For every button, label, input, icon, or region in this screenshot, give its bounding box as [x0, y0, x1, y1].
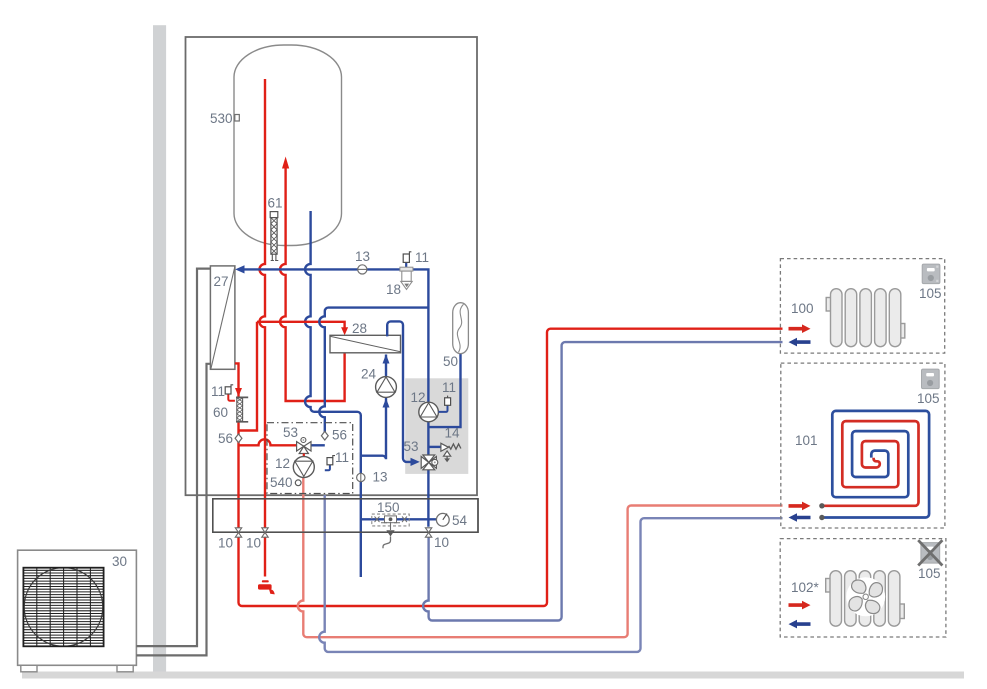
- degasser 18: [400, 267, 413, 289]
- refrigerant pipe outdoor-indoor (upper): [136, 269, 210, 646]
- pipe: expansion vessel 50 connection (blue): [429, 354, 461, 428]
- pipe: top blue line to HX27 with 13 sensor and degasser 18: [235, 265, 428, 526]
- pipe: blue tap from mixing valve to return riser: [311, 444, 325, 446]
- svg-text:60: 60: [213, 405, 228, 420]
- svg-text:13: 13: [373, 470, 388, 485]
- svg-text:102*: 102*: [791, 580, 820, 595]
- svg-text:28: 28: [352, 321, 367, 336]
- svg-text:12: 12: [411, 390, 426, 405]
- svg-text:530: 530: [210, 111, 233, 126]
- svg-text:11: 11: [442, 380, 456, 395]
- wall: [153, 25, 166, 678]
- vent valve 11 (mixed circuit box): [325, 456, 335, 471]
- tank sensor pocket 530: [235, 115, 240, 122]
- safety valve 14: [441, 443, 461, 462]
- svg-text:105: 105: [917, 391, 940, 406]
- mixed circuit dash-dot box: [267, 423, 353, 494]
- shutoff valve 10 (red supply): [235, 528, 241, 537]
- shutoff valve 10 (tap line): [262, 528, 268, 537]
- thermostat 105 room 101: [922, 369, 940, 389]
- svg-text:14: 14: [445, 426, 461, 441]
- check valve 56 (blue line): [321, 431, 328, 440]
- svg-text:53: 53: [404, 439, 419, 454]
- refrigerant pipe outdoor-indoor (lower): [136, 364, 210, 656]
- drain valve 11 at filter 60: [225, 385, 235, 401]
- pipe: branch to HX 28 (red): [239, 322, 349, 431]
- svg-text:24: 24: [361, 367, 377, 382]
- gray highlight zone (DHW pump group): [405, 378, 468, 474]
- svg-text:10: 10: [218, 536, 233, 551]
- field pipe: heating return from room 100 (blue): [423, 342, 782, 620]
- fan coil icon room 102: [826, 571, 905, 627]
- outdoor unit 30: [18, 550, 137, 672]
- backflow preventer 60: [236, 397, 248, 421]
- underfloor heating spiral room 101: [822, 411, 929, 518]
- svg-text:10: 10: [246, 536, 261, 551]
- svg-text:540: 540: [270, 475, 293, 490]
- filter unit 150: [372, 514, 409, 526]
- pipe: tank charge line from HX28 (red with up arrow): [280, 157, 344, 402]
- radiator icon room 100: [826, 289, 905, 347]
- svg-text:11: 11: [335, 450, 349, 465]
- drain 540: [295, 480, 301, 486]
- room 102 box: [780, 539, 946, 637]
- heat exchanger 28: [330, 335, 401, 353]
- pipe: tank hot water outlet to tap (red riser): [260, 79, 266, 577]
- return arrow room 101 (blue): [789, 513, 811, 522]
- hot water tap: [258, 580, 275, 594]
- supply arrow room 102 (red): [789, 601, 811, 610]
- pipe: blue out of HX28 to 3-way valve 53 (with arrow): [387, 321, 420, 466]
- svg-text:105: 105: [918, 566, 941, 581]
- svg-text:13: 13: [355, 249, 370, 264]
- return arrow room 100 (blue): [789, 338, 811, 347]
- expansion vessel 50: [453, 303, 469, 354]
- svg-text:50: 50: [443, 354, 458, 369]
- thermostat 105 room 100: [922, 264, 940, 284]
- diverter valve 53 (right): [421, 455, 438, 470]
- DHW pump 12 (gray zone): [419, 402, 439, 422]
- room 100 box: [780, 259, 944, 354]
- field pipe: mixed circuit return from room 101 (pale blue): [319, 495, 782, 652]
- pipe: blue loop from return riser to pump 12 line: [319, 308, 428, 436]
- svg-text:61: 61: [268, 196, 283, 211]
- check valve 56 (red line): [235, 434, 242, 443]
- svg-text:12: 12: [275, 456, 290, 471]
- pump 24: [376, 377, 397, 398]
- spiral connection dots: [819, 503, 824, 520]
- floor: [22, 672, 964, 679]
- sensor 13 (bottom): [357, 473, 365, 481]
- vent valve 11 (top): [403, 252, 411, 271]
- mixing valve 53 (left): [297, 438, 311, 459]
- field pipe: heating supply to room 100 (red): [239, 329, 783, 606]
- svg-text:150: 150: [377, 500, 400, 515]
- svg-text:10: 10: [434, 535, 449, 550]
- room 101 box: [781, 363, 945, 528]
- tundish drain below 150: [383, 522, 395, 548]
- heat exchanger 27: [210, 266, 235, 369]
- circulation pump 12 (mixed circuit): [293, 457, 314, 478]
- field pipe: mixed circuit supply to room 101 (pale red): [298, 477, 783, 637]
- shutoff valve 10 (blue return): [425, 528, 431, 537]
- svg-text:11: 11: [415, 250, 429, 265]
- pipe: red branch to mixing valve 53: [239, 439, 297, 445]
- pipe: pump 24 suction from compartment (blue): [361, 398, 390, 459]
- svg-text:105: 105: [919, 286, 942, 301]
- svg-text:30: 30: [112, 554, 127, 569]
- supply arrow room 100 (red): [789, 324, 811, 333]
- svg-text:11: 11: [211, 384, 225, 399]
- pipe: pump 24 discharge into HX28 (blue): [383, 354, 390, 377]
- svg-text:56: 56: [332, 428, 347, 443]
- electric heater element 61: [270, 212, 278, 261]
- svg-text:56: 56: [218, 431, 233, 446]
- pipe: tank cold feed (blue riser): [305, 211, 361, 577]
- vent valve 11 (gray zone): [439, 396, 451, 412]
- svg-text:27: 27: [214, 274, 229, 289]
- sensor 13 (top): [358, 265, 367, 274]
- crossed-out thermostat 105 room 102: [918, 540, 942, 565]
- return arrow room 102 (blue): [789, 620, 811, 629]
- svg-text:18: 18: [386, 282, 401, 297]
- supply arrow room 101 (red): [789, 502, 811, 511]
- svg-text:54: 54: [452, 513, 468, 528]
- svg-text:101: 101: [795, 433, 818, 448]
- pipe: compartment line to pressure gauge 54: [361, 518, 437, 520]
- connection compartment border (over pipes): [213, 499, 478, 532]
- svg-text:100: 100: [791, 301, 814, 316]
- svg-text:53: 53: [283, 425, 298, 440]
- pressure gauge 54: [436, 513, 449, 526]
- DHW cylinder tank: [234, 45, 342, 246]
- pipe: safety valve 14 stub (blue): [429, 446, 441, 448]
- indoor unit enclosure: [186, 37, 478, 495]
- pipe: condenser output down to filter 60 (red): [235, 363, 242, 537]
- connection compartment box: [213, 499, 478, 532]
